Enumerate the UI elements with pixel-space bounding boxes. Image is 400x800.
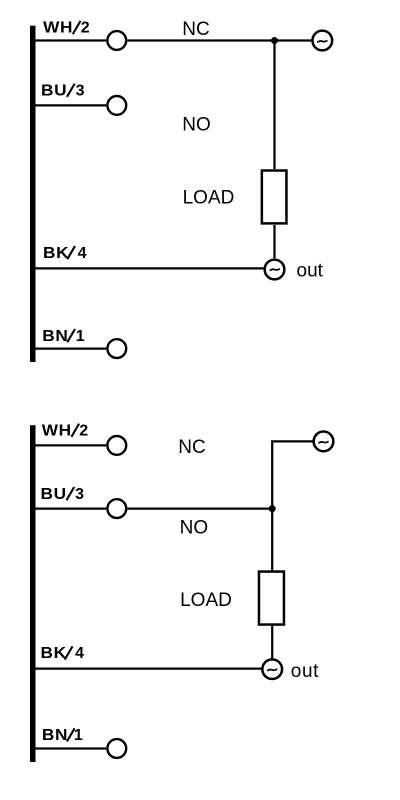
svg-text:3: 3 bbox=[75, 486, 85, 503]
svg-text:out: out bbox=[291, 661, 319, 682]
svg-text:BK: BK bbox=[40, 644, 66, 662]
svg-text:1: 1 bbox=[74, 727, 84, 744]
svg-text:2: 2 bbox=[79, 422, 89, 439]
svg-text:2: 2 bbox=[81, 20, 91, 37]
svg-text:NO: NO bbox=[180, 517, 209, 538]
svg-text:NO: NO bbox=[182, 115, 211, 136]
svg-text:NC: NC bbox=[182, 19, 209, 40]
svg-text:BU: BU bbox=[41, 81, 67, 99]
svg-text:4: 4 bbox=[78, 245, 88, 262]
svg-text:BN: BN bbox=[42, 326, 68, 344]
svg-text:LOAD: LOAD bbox=[180, 590, 232, 611]
svg-text:NC: NC bbox=[178, 437, 205, 458]
svg-text:4: 4 bbox=[75, 645, 85, 662]
svg-text:WH: WH bbox=[43, 18, 73, 36]
svg-text:BK: BK bbox=[43, 243, 69, 261]
svg-text:3: 3 bbox=[76, 82, 86, 99]
svg-text:LOAD: LOAD bbox=[183, 187, 235, 208]
svg-text:1: 1 bbox=[76, 328, 86, 345]
svg-text:WH: WH bbox=[42, 421, 72, 439]
svg-text:BN: BN bbox=[42, 726, 68, 744]
svg-text:out: out bbox=[297, 260, 324, 281]
svg-text:BU: BU bbox=[41, 484, 67, 502]
